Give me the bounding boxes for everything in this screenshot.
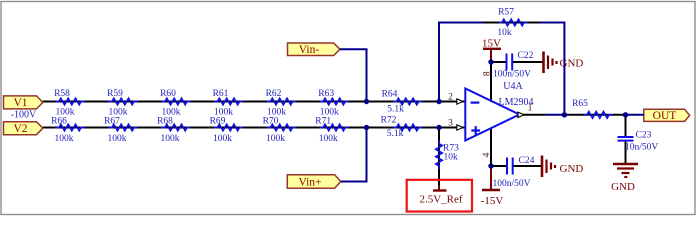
svg-text:-15V: -15V <box>481 195 504 207</box>
svg-text:100k: 100k <box>108 134 127 144</box>
svg-text:15V: 15V <box>482 37 501 49</box>
svg-text:R61: R61 <box>213 89 229 99</box>
resistor R67 100k <box>104 117 137 145</box>
svg-text:R58: R58 <box>54 89 70 99</box>
wire 15V node to C22 <box>491 61 507 63</box>
junction <box>436 99 441 104</box>
svg-text:1: 1 <box>528 104 533 114</box>
power 2.5V_Ref <box>419 185 462 206</box>
svg-text:R71: R71 <box>315 117 331 127</box>
junction <box>623 112 628 117</box>
wire output node to OUT port <box>626 114 644 116</box>
capacitor C22 100n/50V <box>493 51 534 80</box>
svg-text:R60: R60 <box>160 89 176 99</box>
op-amp pin 2 arrow <box>457 99 463 104</box>
junction <box>562 112 567 117</box>
resistor R73 10k to 2.5V_Ref <box>436 140 459 169</box>
resistor R60 100k <box>160 89 190 118</box>
svg-text:100k: 100k <box>266 134 285 144</box>
svg-text:GND: GND <box>611 181 635 193</box>
resistor R69 100k <box>210 117 243 145</box>
svg-text:100n/50V: 100n/50V <box>493 70 531 80</box>
resistor R68 100k <box>157 117 190 145</box>
wire op-amp output to feedback node <box>546 114 565 116</box>
power 15V <box>482 37 501 62</box>
svg-text:R70: R70 <box>263 117 279 127</box>
svg-text:GND: GND <box>560 163 584 175</box>
svg-text:R65: R65 <box>572 99 588 109</box>
power -15V <box>481 168 504 207</box>
svg-text:R68: R68 <box>157 117 173 127</box>
svg-text:100k: 100k <box>55 134 74 144</box>
capacitor C23 10n/50V <box>618 131 659 153</box>
wire op-amp pin 8 to 15V node <box>490 62 492 102</box>
resistor R66 100k <box>51 117 84 145</box>
svg-text:OUT: OUT <box>653 110 677 122</box>
resistor R63 100k <box>318 89 348 118</box>
svg-text:R66: R66 <box>51 117 67 127</box>
resistor R59 100k <box>107 89 137 118</box>
resistor R57 10k feedback <box>497 7 527 38</box>
wire op-amp pin 4 to -15V node <box>490 128 492 166</box>
svg-text:Vin+: Vin+ <box>298 177 321 189</box>
svg-text:100k: 100k <box>213 134 232 144</box>
resistor R62 100k <box>266 89 296 118</box>
svg-text:R59: R59 <box>107 89 123 99</box>
op-amp pin 1 arrow <box>518 112 524 117</box>
wire C23 stem <box>625 115 627 164</box>
svg-text:-100V: -100V <box>11 110 37 121</box>
svg-text:5.1k: 5.1k <box>387 105 404 115</box>
port V2 <box>4 122 43 135</box>
svg-text:8: 8 <box>483 71 493 76</box>
svg-text:10n/50V: 10n/50V <box>625 143 658 153</box>
svg-text:R64: R64 <box>382 90 398 100</box>
wire Vin- to top chain junction <box>340 49 367 101</box>
svg-text:100k: 100k <box>319 134 338 144</box>
resistor R70 100k <box>263 117 296 145</box>
port Vin- <box>288 43 340 56</box>
junction <box>488 163 493 168</box>
resistor R64 5.1k <box>382 90 423 115</box>
svg-text:V1: V1 <box>13 97 27 109</box>
svg-text:C23: C23 <box>636 131 652 141</box>
port Vin+ <box>287 175 341 189</box>
wire bottom chain V2 to op-amp pin 3 <box>43 127 465 129</box>
svg-text:10k: 10k <box>444 153 459 163</box>
svg-text:4: 4 <box>482 152 492 157</box>
svg-text:Vin-: Vin- <box>299 44 320 56</box>
resistor R61 100k <box>213 89 243 118</box>
junction <box>488 59 493 64</box>
highlight box 2.5V_Ref <box>407 180 472 212</box>
svg-text:R57: R57 <box>498 7 514 17</box>
svg-text:R67: R67 <box>104 117 120 127</box>
svg-text:R63: R63 <box>318 89 334 99</box>
op-amp U4A LM2904 <box>465 81 533 141</box>
wire output node through R65 to C23 node <box>564 114 625 116</box>
wire op-amp pin 1 output <box>520 114 546 116</box>
resistor R71 100k <box>315 117 348 145</box>
svg-text:2: 2 <box>448 93 453 103</box>
wire C22 to GND <box>512 61 543 63</box>
svg-text:100n/50V: 100n/50V <box>493 179 531 189</box>
ground GND at C24 <box>542 156 583 178</box>
port OUT <box>644 109 690 121</box>
svg-text:V2: V2 <box>13 123 27 135</box>
svg-text:U4A: U4A <box>503 81 523 92</box>
svg-text:GND: GND <box>560 57 584 69</box>
wire R73 vertical <box>438 128 440 191</box>
ground GND at C23 <box>611 164 638 193</box>
svg-text:R72: R72 <box>381 116 397 126</box>
svg-text:R62: R62 <box>266 89 282 99</box>
svg-text:3: 3 <box>448 119 453 129</box>
wire C24 to GND <box>513 165 542 167</box>
resistor R72 5.1k <box>381 116 423 140</box>
ground GND at C22 <box>544 52 584 74</box>
wire top chain V1 to op-amp pin 2 <box>43 101 465 103</box>
capacitor C24 100n/50V <box>493 156 535 189</box>
resistor R58 100k <box>54 89 84 118</box>
wire -15V node to C24 <box>491 165 507 167</box>
svg-text:C22: C22 <box>518 51 534 61</box>
op-amp pin 3 arrow <box>457 125 463 130</box>
svg-text:5.1k: 5.1k <box>387 129 404 139</box>
wire R57 pins <box>483 22 539 24</box>
svg-text:100k: 100k <box>161 134 180 144</box>
svg-text:R69: R69 <box>210 117 226 127</box>
wire feedback loop R57 <box>439 23 564 115</box>
junction <box>364 125 369 130</box>
svg-text:C24: C24 <box>519 156 535 166</box>
resistor R65 output <box>572 99 612 118</box>
junction <box>436 125 441 130</box>
junction <box>364 99 369 104</box>
svg-text:2.5V_Ref: 2.5V_Ref <box>419 194 462 206</box>
wire Vin+ to bottom chain junction <box>341 128 367 182</box>
port V1 <box>4 96 43 109</box>
